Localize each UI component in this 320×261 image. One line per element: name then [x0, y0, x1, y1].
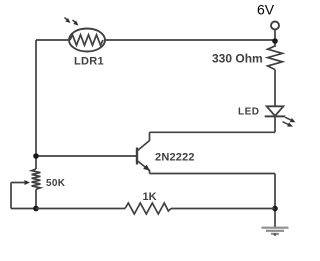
wire LED cathode down to collector rail — [274, 116, 276, 132]
junction node pot bottom — [33, 206, 39, 212]
resistor 1K zigzag — [125, 203, 171, 214]
svg-text:1K: 1K — [143, 191, 157, 203]
potentiometer wiper arrowhead — [25, 180, 31, 185]
wire top rail left (LDR left lead to top-left corner) — [36, 39, 69, 41]
wire collector horizontal rail — [150, 131, 276, 133]
LDR1 light arrow 2 — [73, 20, 79, 26]
wire 6V terminal stem — [274, 30, 276, 48]
junction node bottom right — [272, 206, 278, 212]
wire bottom rail right (1K to ground node) — [171, 208, 275, 210]
svg-text:LDR1: LDR1 — [74, 56, 104, 68]
LED emission arrow 1 — [285, 117, 295, 122]
svg-text:2N2222: 2N2222 — [155, 152, 195, 164]
svg-text:330 Ohm: 330 Ohm — [212, 52, 263, 66]
LED emission arrow 2 — [283, 122, 293, 127]
junction node base/left rail — [33, 153, 39, 159]
ground symbol — [262, 228, 289, 234]
junction node at 6V rail — [272, 38, 278, 44]
wire left vertical (top-left corner down to potentiometer) — [35, 40, 37, 169]
transistor Q1 collector lead — [137, 132, 150, 151]
LDR1 envelope ellipse — [69, 29, 105, 52]
wire wiper to bottom rail — [11, 208, 36, 210]
transistor Q1 2N2222 base bar — [136, 148, 138, 165]
LED D1 triangle — [267, 106, 284, 116]
wire right vertical (emitter rail down to ground node) — [274, 174, 276, 228]
wire 330 Ohm to LED — [274, 70, 276, 107]
wire base (left rail to transistor base) — [36, 155, 136, 157]
LDR1 light arrow 1 — [65, 18, 71, 24]
wire pot bottom lead — [35, 189, 37, 208]
potentiometer 50K zigzag — [32, 169, 41, 189]
ground tip dot — [274, 233, 277, 236]
svg-text:6V: 6V — [257, 2, 275, 18]
wire emitter horizontal rail — [150, 173, 276, 175]
svg-text:LED: LED — [238, 107, 260, 118]
transistor Q1 emitter arrowhead — [143, 165, 150, 171]
potentiometer 50K wiper arrow — [11, 182, 26, 184]
wire wiper vertical — [10, 183, 12, 209]
transistor Q1 emitter lead — [137, 161, 150, 174]
wire top rail right (LDR right lead to 6V node) — [105, 39, 275, 41]
resistor 330 Ohm zigzag — [268, 46, 283, 70]
wire bottom rail left (pot to 1K) — [36, 208, 125, 210]
LED cathode bar — [265, 115, 286, 117]
power terminal 6V open circle — [271, 22, 279, 30]
svg-text:50K: 50K — [46, 178, 66, 189]
resistor LDR1 zigzag — [70, 35, 103, 45]
